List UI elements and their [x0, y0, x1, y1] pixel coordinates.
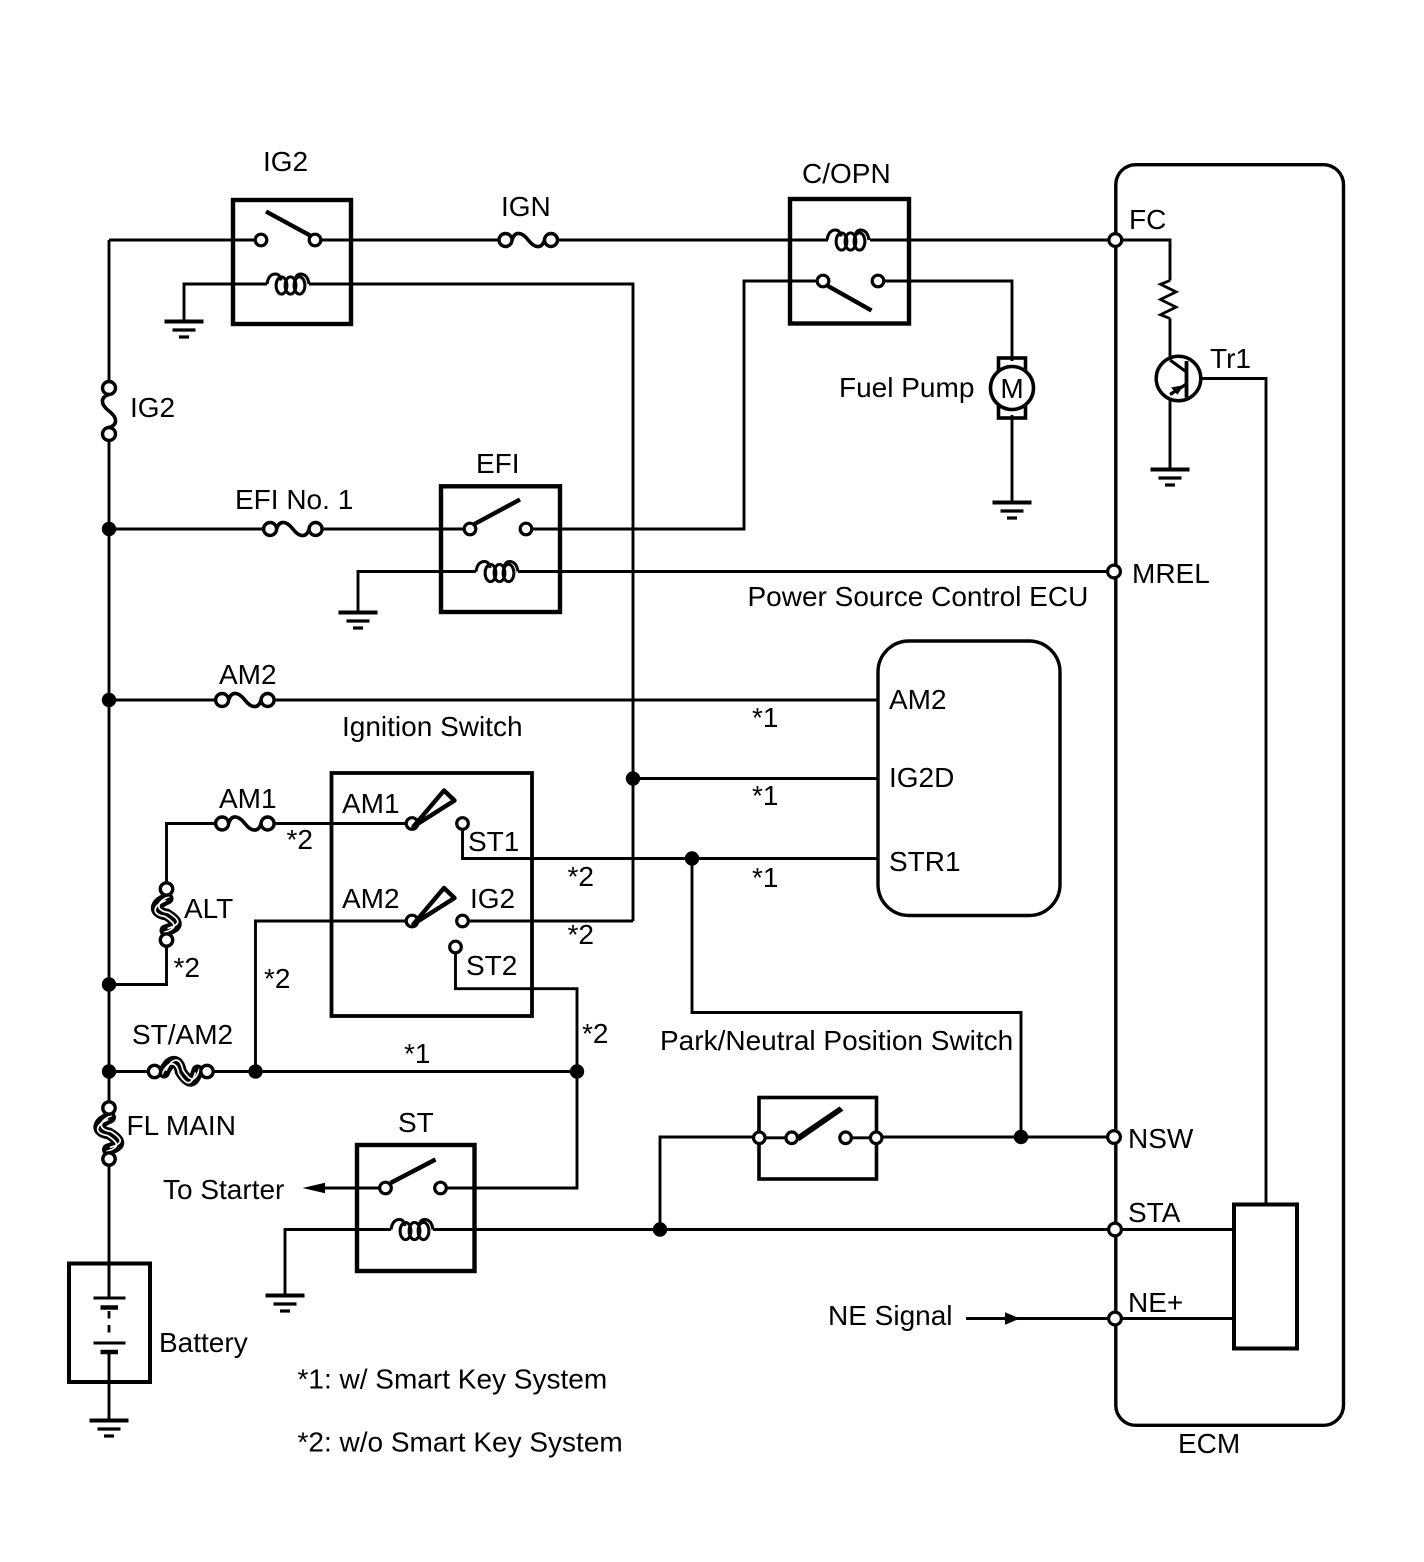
wire ignition switch ST1 contact to STR1: [463, 830, 879, 859]
junction bus / ALT branch: [102, 977, 116, 991]
svg-text:*1: w/ Smart Key System: *1: w/ Smart Key System: [298, 1364, 608, 1395]
wire ST relay coil to ground: [285, 1230, 391, 1296]
svg-text:*2: *2: [264, 963, 290, 994]
svg-text:IG2: IG2: [263, 146, 308, 177]
resistor (FC pull-up): [1161, 281, 1177, 319]
svg-text:ST1: ST1: [468, 826, 519, 857]
wire fuel pump to ground: [1011, 415, 1014, 503]
relay C/OPN box: [790, 199, 909, 324]
battery box: [69, 1264, 150, 1383]
relay ST switch contacts: [380, 1182, 392, 1194]
wire ST relay coil to ECM terminal STA: [433, 1228, 1109, 1231]
junction node IG2D (x=633): [626, 771, 640, 785]
relay IG2 switch blade: [266, 212, 312, 237]
terminal STA: [1109, 1223, 1122, 1236]
svg-text:*1: *1: [752, 702, 778, 733]
relay C/OPN coil: [827, 230, 869, 250]
svg-text:IG2D: IG2D: [889, 762, 954, 793]
wire AM2 fuse row (bus to fuse): [109, 699, 215, 702]
svg-text:Battery: Battery: [159, 1327, 248, 1358]
svg-text:Fuel Pump: Fuel Pump: [839, 372, 974, 403]
fuse EFI No.1: [264, 522, 323, 535]
svg-text:*2: *2: [568, 919, 594, 950]
fuel pump motor brush (top): [999, 358, 1026, 370]
wire IGN fuse to C/OPN relay coil: [557, 239, 828, 242]
svg-text:ST/AM2: ST/AM2: [132, 1019, 233, 1050]
wire resistor to transistor Tr1 collector: [1169, 319, 1172, 362]
relay EFI switch blade: [475, 500, 521, 525]
svg-text:FC: FC: [1129, 204, 1166, 235]
relay IG2 box: [233, 200, 351, 324]
wire EFI relay output to C/OPN relay contact: [532, 281, 817, 529]
transistor Tr1 emitter: [1170, 384, 1187, 395]
svg-text:C/OPN: C/OPN: [802, 158, 891, 189]
Power Source Control ECU box: [878, 641, 1060, 916]
svg-text:NE Signal: NE Signal: [828, 1300, 953, 1331]
wire node STR1 to park/neutral switch feed: [692, 859, 1021, 1138]
svg-text:*1: *1: [404, 1038, 430, 1069]
park/neutral position switch inner wires: [765, 1136, 786, 1139]
wire node IG2D to Power Source Control ECU IG2D: [633, 777, 878, 780]
ground (transistor Tr1 emitter): [1151, 470, 1190, 486]
wire ignition switch AM2 contact branch: [256, 921, 407, 1072]
svg-text:Park/Neutral Position Switch: Park/Neutral Position Switch: [660, 1025, 1013, 1056]
wire IG2 relay coil to node IG2D (vertical x=633): [309, 284, 633, 921]
wire IG2 relay contact to IGN fuse: [319, 239, 499, 242]
relay IG2 coil: [267, 274, 309, 294]
wire EFI relay coil to ground: [358, 572, 476, 613]
svg-text:*1: *1: [752, 862, 778, 893]
terminal NE+: [1109, 1312, 1122, 1325]
battery plate long (bottom): [94, 1342, 126, 1345]
relay ST switch blade: [391, 1160, 436, 1184]
battery dashed link: [108, 1311, 111, 1337]
svg-text:AM1: AM1: [219, 783, 277, 814]
junction bus / AM2 fuse: [102, 693, 116, 707]
fusible link IG2: [102, 382, 115, 441]
wire transistor Tr1 base to ECM driver block: [1187, 379, 1267, 1205]
svg-text:AM2: AM2: [342, 883, 400, 914]
svg-text:AM2: AM2: [219, 659, 277, 690]
svg-text:FL MAIN: FL MAIN: [127, 1110, 236, 1141]
ground (fuel pump): [993, 503, 1032, 519]
battery plate short (bottom): [101, 1350, 119, 1355]
ground (ST relay coil): [266, 1296, 305, 1312]
wire EFI No.1 fuse row (bus to fuse): [109, 528, 263, 531]
svg-text:AM2: AM2: [889, 684, 947, 715]
svg-text:IG2: IG2: [130, 392, 175, 423]
wire transistor Tr1 emitter to ground: [1169, 394, 1172, 470]
ground (battery): [90, 1421, 129, 1437]
ground (IG2 relay coil): [165, 322, 204, 338]
svg-text:To Starter: To Starter: [163, 1174, 284, 1205]
svg-text:NE+: NE+: [1128, 1287, 1183, 1318]
relay ST box: [357, 1145, 475, 1271]
wire ignition switch IG2 contact to vertical x=633: [468, 920, 633, 923]
wire battery positive bus (left vertical, lower section): [108, 1165, 111, 1298]
svg-text:IG2: IG2: [470, 883, 515, 914]
junction AM2 branch / ST-AM2 row: [248, 1064, 262, 1078]
relay IG2 switch contacts: [255, 234, 267, 246]
fusible link FL MAIN: [98, 1102, 121, 1165]
svg-text:ST: ST: [398, 1107, 434, 1138]
relay EFI coil: [476, 562, 518, 582]
NE signal arrow: [1005, 1312, 1020, 1324]
junction park-neutral output / NSW wire: [1014, 1130, 1028, 1144]
ECM box: [1116, 165, 1344, 1426]
fuse AM1: [216, 817, 275, 830]
junction bus / ST-AM2 link: [102, 1064, 116, 1078]
ignition switch AM2 contact: [406, 915, 418, 927]
wire ignition switch ST2 contact to ST relay contact: [446, 953, 577, 1188]
ignition switch ST2 contact: [450, 941, 462, 953]
ignition switch AM1 lever: [414, 791, 455, 827]
svg-text:AM1: AM1: [342, 788, 400, 819]
wire ST/AM2 fuse row (bus to link): [109, 1070, 148, 1073]
fusible link ALT: [155, 883, 178, 946]
relay EFI switch contacts: [464, 523, 476, 535]
battery plate long (top): [94, 1297, 126, 1300]
wire STA terminal to ECM driver block: [1121, 1228, 1234, 1231]
svg-text:*2: *2: [582, 1018, 608, 1049]
svg-text:STR1: STR1: [889, 846, 961, 877]
to-starter arrow: [303, 1183, 326, 1194]
wire ST/AM2 link to node x=577: [214, 1070, 578, 1073]
svg-text:Power Source Control ECU: Power Source Control ECU: [748, 581, 1089, 612]
fusible link ST/AM2: [148, 1060, 213, 1083]
relay ST coil: [391, 1220, 433, 1240]
terminal NSW: [1108, 1131, 1121, 1144]
transistor Tr1 body: [1156, 356, 1201, 401]
wire IG2 relay coil to ground: [184, 284, 267, 322]
wire AM1 fuse to ALT fusible link: [167, 824, 216, 883]
svg-text:MREL: MREL: [1132, 558, 1210, 589]
fuse AM2: [216, 693, 275, 706]
ground (EFI relay coil): [339, 613, 378, 629]
svg-text:M: M: [1000, 373, 1023, 404]
svg-text:*1: *1: [752, 780, 778, 811]
wire battery positive bus (left vertical, middle section): [108, 441, 111, 1102]
svg-text:STA: STA: [1128, 1197, 1181, 1228]
wire battery to ground: [108, 1352, 111, 1421]
svg-text:IGN: IGN: [501, 191, 551, 222]
fuel pump motor brush (bottom): [999, 406, 1026, 418]
svg-text:*2: w/o Smart Key System: *2: w/o Smart Key System: [298, 1427, 623, 1458]
park/neutral position switch blade: [796, 1107, 844, 1142]
svg-text:Ignition Switch: Ignition Switch: [342, 711, 523, 742]
wire bus to IG2 relay contact (top horizontal): [109, 239, 255, 242]
ignition switch ST1 contact: [457, 818, 469, 830]
wire battery internal stem (top): [108, 1264, 111, 1299]
wire NE+ terminal to ECM driver block: [1121, 1317, 1234, 1320]
svg-text:Tr1: Tr1: [1210, 343, 1251, 374]
wire AM1 fuse to ignition switch AM1 contact: [276, 822, 407, 825]
svg-text:ALT: ALT: [184, 893, 233, 924]
ignition switch IG2 contact: [457, 915, 469, 927]
fuel pump motor M: [991, 367, 1034, 410]
wire NE signal input: [966, 1317, 1109, 1320]
wire AM2 fuse to Power Source Control ECU AM2: [276, 699, 878, 702]
transistor Tr1 emitter arrow: [1171, 385, 1184, 395]
battery plate short (top): [101, 1305, 119, 1310]
wire ST relay contact to starter (arrow line): [318, 1187, 380, 1190]
svg-text:*2: *2: [287, 824, 313, 855]
ECM driver block: [1234, 1205, 1297, 1349]
junction node STR1 (x=692): [685, 851, 699, 865]
junction ST2 branch / ST-AM2 row: [570, 1064, 584, 1078]
terminal MREL: [1108, 565, 1121, 578]
wire EFI No.1 fuse to EFI relay contact: [321, 528, 464, 531]
terminal FC: [1109, 234, 1122, 247]
ignition switch AM1 contact: [406, 818, 418, 830]
wire C/OPN relay coil to ECM terminal FC: [870, 239, 1109, 242]
svg-text:*2: *2: [568, 861, 594, 892]
svg-text:EFI: EFI: [476, 448, 520, 479]
svg-text:ECM: ECM: [1178, 1428, 1240, 1459]
junction bus / EFI No.1 fuse: [102, 522, 116, 536]
wire park/neutral switch to ECM terminal NSW: [882, 1136, 1107, 1139]
ignition switch AM2 lever: [414, 888, 455, 924]
wire FC terminal to resistor: [1121, 240, 1170, 281]
fuse IGN: [499, 233, 558, 246]
transistor Tr1 collector: [1170, 360, 1187, 372]
svg-text:EFI No. 1: EFI No. 1: [235, 484, 353, 515]
transistor Tr1 base bar: [1185, 361, 1189, 398]
relay C/OPN switch blade: [828, 286, 872, 311]
park/neutral position switch contacts: [754, 1132, 766, 1144]
svg-text:*2: *2: [174, 952, 200, 983]
wire ALT fusible link to bus: [109, 947, 167, 985]
svg-text:NSW: NSW: [1128, 1123, 1194, 1154]
junction park-neutral branch / STA wire: [653, 1222, 667, 1236]
wire EFI relay coil to ECM terminal MREL: [518, 570, 1107, 573]
wire C/OPN relay contact to fuel pump: [884, 281, 1012, 361]
svg-text:ST2: ST2: [466, 950, 517, 981]
wire park/neutral switch to STA node: [660, 1137, 753, 1230]
ignition switch box: [332, 773, 533, 1016]
park/neutral position switch box: [759, 1098, 877, 1180]
relay C/OPN switch contacts: [817, 275, 829, 287]
wire battery positive bus (left vertical, top section): [108, 240, 111, 382]
relay EFI box: [441, 486, 560, 612]
